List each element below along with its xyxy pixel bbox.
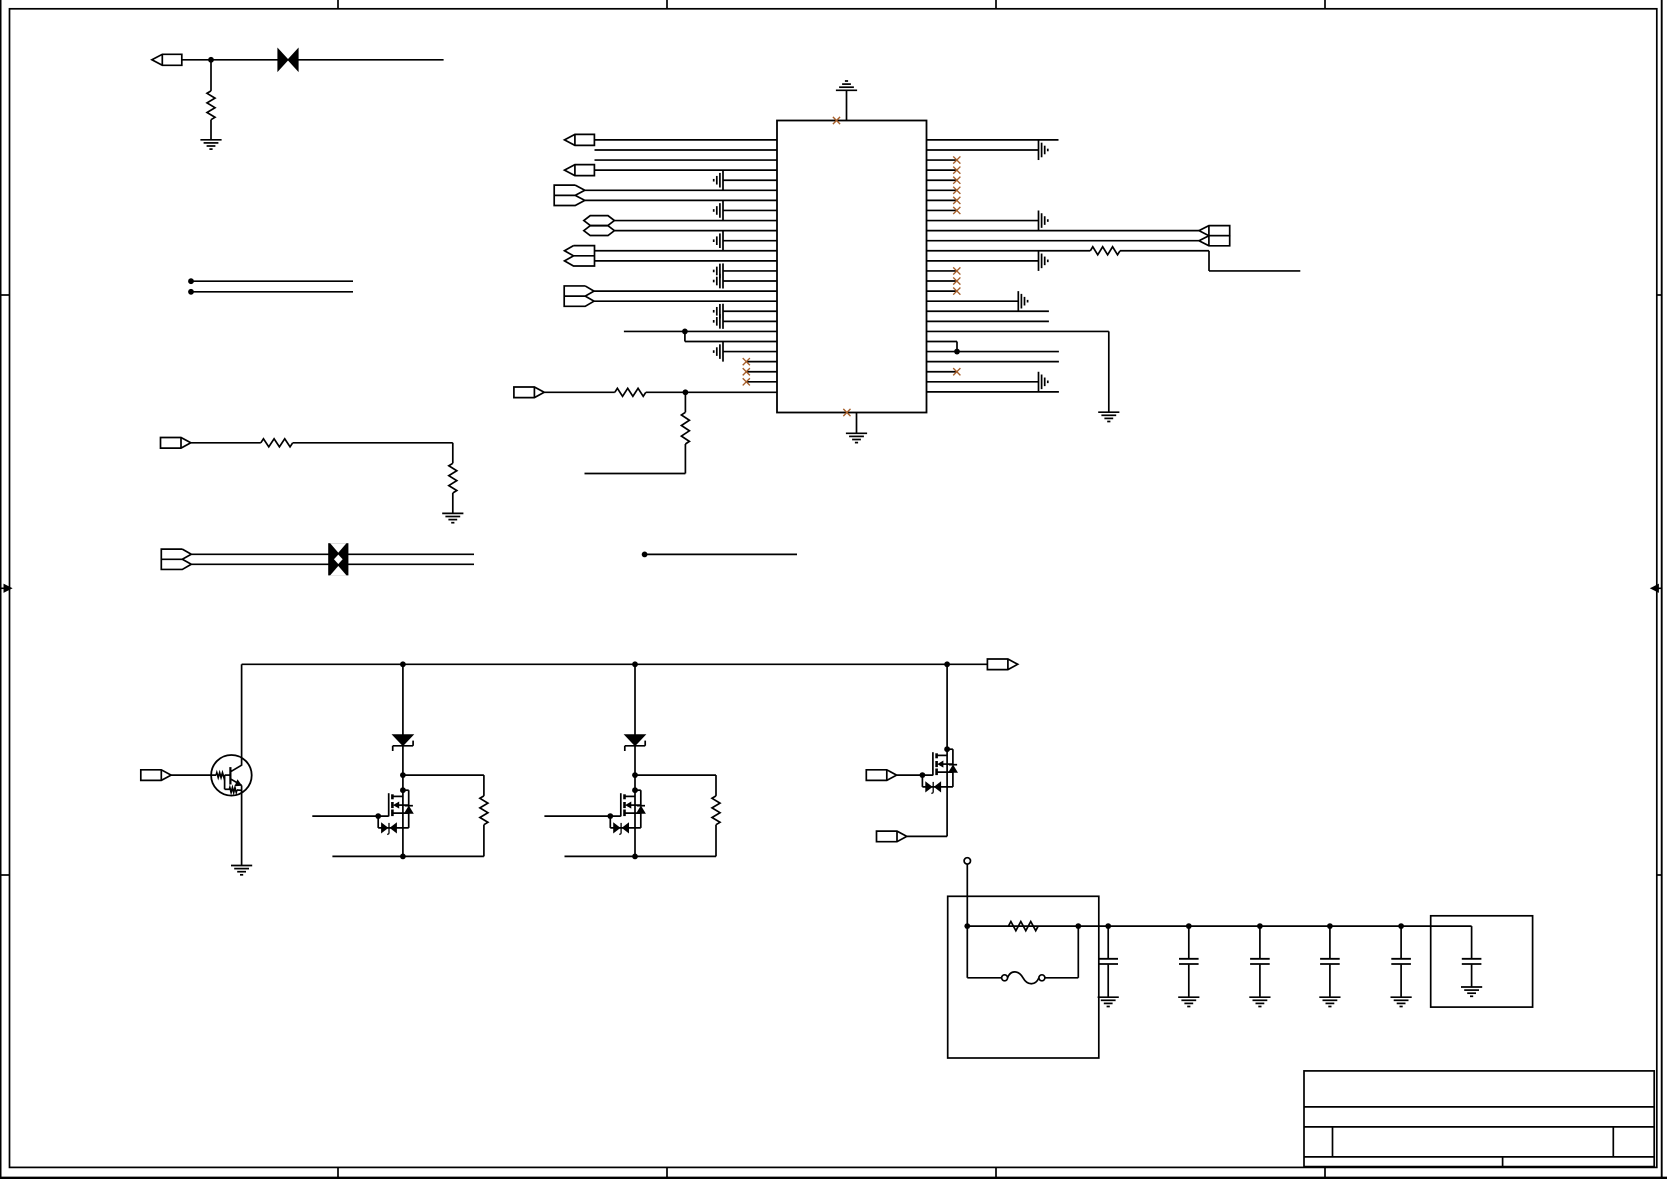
wire U1 pin R9 [927, 220, 1039, 222]
wire U1 pin R2 [927, 149, 1039, 151]
ground [1461, 987, 1482, 996]
wire U1 pin L11 [723, 240, 777, 242]
connector P14 [866, 770, 896, 781]
node NC2 [188, 289, 353, 295]
connector P9 [564, 286, 594, 306]
ground [714, 200, 723, 220]
transistor Q1 [211, 755, 252, 796]
resistor R3 [449, 463, 457, 493]
junction node A [208, 57, 214, 63]
TVS diode D5 [382, 823, 397, 835]
transistor Q2 [389, 790, 413, 828]
no-connect pin 28 [843, 409, 850, 416]
ground [1039, 372, 1048, 392]
wire U1 pin R14 [927, 270, 956, 272]
ground [714, 342, 723, 362]
resistor R8 [712, 796, 720, 825]
no-connect pin R14 [953, 267, 960, 274]
op-amp U1 [777, 121, 927, 413]
wire [293, 443, 453, 464]
wire U1 pin R24 [927, 371, 956, 373]
wire [634, 664, 636, 735]
wire [544, 391, 615, 393]
ground [846, 433, 867, 442]
zener diode D4 [625, 735, 645, 751]
wire U1 pin L17 [594, 300, 777, 302]
capacitor C3 [1250, 926, 1270, 997]
wire [191, 442, 261, 444]
ground [1039, 140, 1048, 160]
junction [400, 787, 406, 793]
wire [241, 785, 243, 865]
wire U1 pin L10 [614, 230, 777, 232]
ground [1039, 251, 1048, 271]
wire [846, 90, 848, 120]
TVS diode D6 [614, 823, 629, 835]
junction [1075, 923, 1081, 929]
resistor R4 [615, 388, 646, 396]
wire U1 pin R25 [927, 381, 1039, 383]
wire U1 pin L5 [723, 179, 777, 181]
wire [210, 60, 212, 91]
capacitor C1 [1098, 926, 1118, 997]
junction [400, 854, 406, 860]
capacitor C2 [1179, 926, 1199, 997]
connector P3 [161, 549, 191, 569]
wire [312, 815, 388, 817]
wire [634, 746, 636, 857]
capacitor C4 [1320, 926, 1340, 997]
transistor Q4 [933, 749, 957, 787]
wire U1 pin R11 [927, 240, 1200, 242]
wire U1 pin R5 [927, 179, 956, 181]
wire U1 pin L13 [595, 260, 778, 262]
no-connect pin R7 [953, 197, 960, 204]
junction [1186, 923, 1192, 929]
junction [1257, 923, 1263, 929]
node NC3 [642, 552, 797, 558]
ground [714, 304, 723, 329]
wire [565, 825, 717, 857]
junction [400, 772, 406, 778]
wire U1 pin L4 [595, 169, 778, 171]
no-connect pin 23 [743, 358, 750, 365]
connector P7 [584, 216, 615, 236]
junction node D [954, 349, 960, 355]
ground [714, 170, 723, 190]
wire [922, 775, 953, 787]
wire U1 pin R10 [927, 230, 1200, 232]
wire [966, 864, 968, 926]
wire U1 pin L1 [595, 139, 778, 141]
ground [714, 231, 723, 251]
wire U1 pin R1 [927, 139, 1059, 141]
wire [1045, 926, 1078, 978]
wire [191, 563, 474, 565]
wire U1 pin R19 [927, 320, 1049, 322]
no-connect pin 27 [833, 117, 840, 124]
wire U1 pin L24 [746, 371, 777, 373]
connector P1 [152, 54, 182, 65]
wire U1 pin R13 [927, 260, 1039, 262]
resistor R2 [261, 439, 293, 447]
wire U1 pin L2 [595, 149, 778, 151]
junction [632, 661, 638, 667]
connector P2 [161, 438, 191, 449]
junction node C [683, 389, 689, 395]
wire U1 pin R4 [927, 169, 956, 171]
wire [241, 664, 243, 765]
wire net VCC rail [242, 663, 988, 665]
connector P6 [554, 185, 585, 205]
ground [1319, 997, 1340, 1006]
no-connect pin R8 [953, 207, 960, 214]
junction [632, 854, 638, 860]
wire U1 pin L6 [585, 189, 777, 191]
TVS diode D7 [926, 782, 941, 794]
ground [200, 140, 221, 149]
connector P12 [987, 659, 1017, 670]
wire U1 pin L26 [646, 391, 777, 393]
junction [607, 813, 613, 819]
wire U1 pin L23 [746, 361, 777, 363]
junction [964, 923, 970, 929]
wire net VIN [182, 59, 444, 61]
wire U1 pin L7 [585, 199, 777, 201]
wire U1 pin L22 [723, 351, 777, 353]
no-connect pin R3 [953, 156, 960, 163]
wire [191, 553, 474, 555]
junction [944, 746, 950, 752]
capacitor C5 [1391, 926, 1411, 997]
ground [1391, 997, 1412, 1006]
ground [1249, 997, 1270, 1006]
wire U1 pin R8 [927, 209, 956, 211]
wire U1 pin R22 [927, 351, 1059, 353]
wire [332, 825, 484, 857]
ground [1098, 997, 1119, 1006]
wire U1 pin R7 [927, 199, 956, 201]
zener diode D3 [393, 735, 413, 751]
fuse F1 [1002, 972, 1045, 984]
junction [375, 813, 381, 819]
TVS diode D1 [278, 49, 298, 71]
wire [171, 774, 216, 776]
connector P11 [1199, 226, 1230, 246]
transistor Q3 [621, 790, 645, 828]
no-connect pin R6 [953, 187, 960, 194]
wire [402, 746, 404, 857]
wire U1 pin L3 [595, 159, 778, 161]
wire U1 pin L15 [723, 280, 777, 282]
wire [403, 775, 484, 796]
no-connect pin R4 [953, 167, 960, 174]
TVS diode D2 [328, 543, 348, 575]
junction [1398, 923, 1404, 929]
wire U1 pin L25 [746, 381, 777, 383]
junction [1105, 923, 1111, 929]
wire [684, 392, 686, 412]
relay box K1 [948, 896, 1099, 1058]
wire U1 pin R23 [927, 361, 1059, 363]
ground [1098, 412, 1119, 421]
wire [585, 444, 686, 474]
wire [1120, 251, 1300, 271]
wire [635, 775, 716, 796]
wire [856, 413, 858, 434]
wire [610, 816, 641, 828]
ground [714, 263, 723, 288]
ground [231, 866, 252, 875]
wire U1 pin R21 [927, 342, 958, 352]
ground [1178, 997, 1199, 1006]
resistor R6 [1090, 247, 1120, 255]
wire U1 pin L18 [723, 310, 777, 312]
junction [632, 787, 638, 793]
ground [1039, 210, 1048, 230]
wire U1 pin L8 [723, 209, 777, 211]
junction [1327, 923, 1333, 929]
wire U1 pin L9 [614, 220, 777, 222]
resistor R9 [1008, 922, 1038, 931]
wire U1 pin L19 [723, 320, 777, 322]
connector P13 [141, 770, 171, 781]
wire [452, 493, 454, 513]
ground GND top [836, 81, 857, 90]
ground [1018, 291, 1027, 311]
no-connect pin R15 [953, 277, 960, 284]
wire [378, 816, 409, 828]
wire U1 pin L14 [723, 270, 777, 272]
no-connect pin 25 [743, 378, 750, 385]
wire U1 pin R3 [927, 159, 956, 161]
junction [920, 772, 926, 778]
junction [944, 661, 950, 667]
wire U1 pin R6 [927, 189, 956, 191]
wire [897, 774, 933, 776]
no-connect pin R16 [953, 288, 960, 295]
wire [402, 664, 404, 735]
wire U1 pin R15 [927, 280, 956, 282]
wire [685, 331, 777, 341]
wire [544, 815, 620, 817]
no-connect pin R24 [953, 368, 960, 375]
capacitor C6 [1462, 926, 1482, 987]
resistor R7 [480, 796, 488, 825]
resistor R5 [681, 412, 689, 444]
wire [967, 926, 1001, 978]
wire U1 pin R20 [927, 331, 1109, 412]
wire [907, 835, 947, 837]
junction node B [682, 329, 688, 335]
wire U1 pin R17 [927, 300, 1019, 302]
ground [442, 513, 463, 522]
connector P10 [514, 387, 544, 398]
wire net CAP rail [967, 925, 1471, 927]
wire U1 pin R26 [927, 391, 1059, 393]
wire U1 pin L12 [595, 250, 778, 252]
wire U1 pin L16 [594, 290, 777, 292]
wire U1 pin L20 [624, 330, 777, 332]
no-connect pin R5 [953, 177, 960, 184]
connector P4 [565, 134, 595, 145]
module box M1 [1431, 916, 1533, 1007]
junction [632, 772, 638, 778]
node NC1 [188, 278, 353, 284]
connector P15 [877, 831, 907, 842]
no-connect pin 24 [743, 368, 750, 375]
wire U1 pin R16 [927, 290, 956, 292]
wire [946, 664, 948, 836]
terminal T1 [964, 858, 970, 864]
wire U1 pin R12 [927, 250, 1091, 252]
connector P8 [565, 246, 595, 266]
resistor R1 [207, 91, 215, 120]
connector P5 [565, 165, 595, 176]
wire [210, 120, 212, 140]
wire U1 pin R18 [927, 310, 1049, 312]
junction [400, 661, 406, 667]
